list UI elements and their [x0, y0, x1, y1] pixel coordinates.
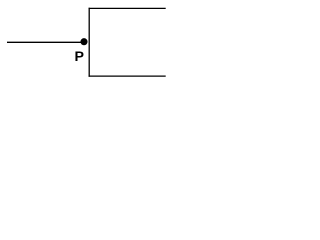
svg-text:P: P	[75, 49, 84, 65]
wire	[88, 8, 90, 77]
wire	[89, 75, 166, 77]
node P	[80, 38, 87, 45]
wire	[7, 41, 86, 43]
wire	[89, 7, 166, 9]
